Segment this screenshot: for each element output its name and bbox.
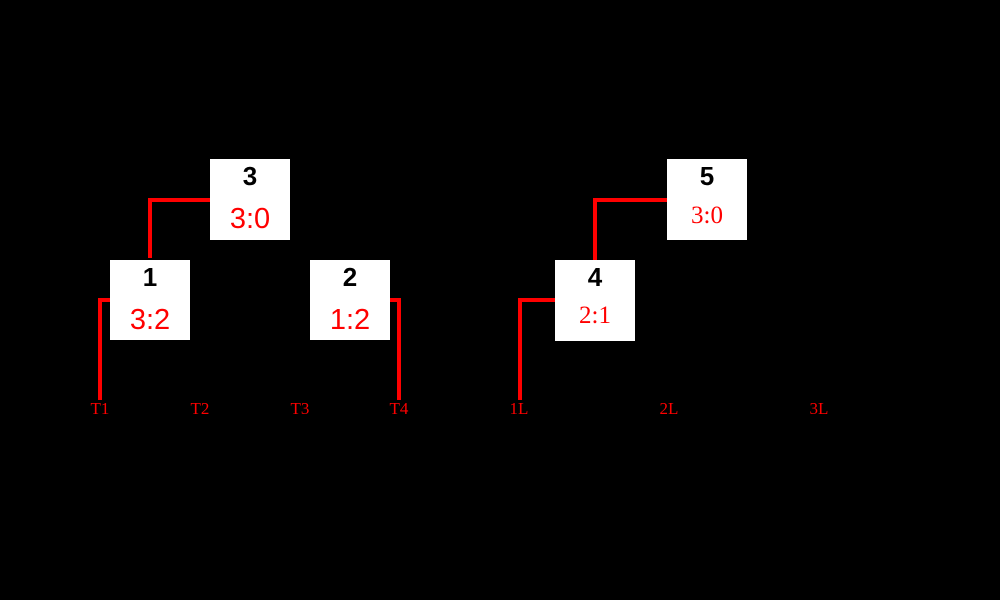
wire T1 up to match 1 left <box>100 300 110 400</box>
match box 1 <box>110 260 190 340</box>
svg-text:3:2: 3:2 <box>130 304 170 336</box>
wire T4 up to match 2 right <box>390 300 399 400</box>
svg-text:3L: 3L <box>810 399 829 418</box>
wire winner bracket: match 3 to match 1 <box>150 200 210 258</box>
svg-text:3:0: 3:0 <box>691 202 723 229</box>
svg-text:1: 1 <box>143 262 157 292</box>
wire loser bracket: match 5 to match 4 <box>595 200 667 260</box>
svg-text:3: 3 <box>243 161 257 191</box>
svg-text:T1: T1 <box>91 399 110 418</box>
match box 2 <box>310 260 390 340</box>
svg-text:1:2: 1:2 <box>330 304 370 336</box>
svg-text:T3: T3 <box>291 399 310 418</box>
wire 1L up to match 4 left <box>520 300 555 400</box>
svg-text:2L: 2L <box>660 399 679 418</box>
svg-text:T2: T2 <box>191 399 210 418</box>
svg-text:2: 2 <box>343 262 357 292</box>
match box 3 (winner final) <box>210 159 290 240</box>
svg-text:1L: 1L <box>510 399 529 418</box>
svg-text:2:1: 2:1 <box>579 302 611 329</box>
svg-text:4: 4 <box>588 262 603 292</box>
svg-text:5: 5 <box>700 161 714 191</box>
svg-text:3:0: 3:0 <box>230 203 270 235</box>
svg-text:T4: T4 <box>390 399 409 418</box>
match box 4 <box>555 260 635 341</box>
match box 5 (loser final) <box>667 159 747 240</box>
